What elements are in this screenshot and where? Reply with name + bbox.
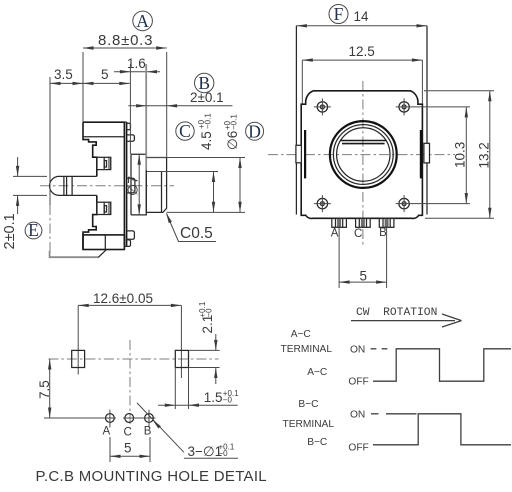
svg-text:8.8±0.3: 8.8±0.3	[98, 32, 153, 49]
svg-text:13.2: 13.2	[476, 142, 491, 168]
svg-text:12.6±0.05: 12.6±0.05	[93, 291, 153, 306]
svg-text:C: C	[123, 426, 131, 438]
svg-text:A: A	[136, 11, 149, 31]
svg-text:OFF: OFF	[348, 377, 368, 388]
svg-text:C0.5: C0.5	[180, 225, 213, 242]
svg-text:C: C	[179, 121, 191, 141]
svg-text:−0: −0	[223, 396, 233, 405]
svg-text:B−C: B−C	[298, 399, 318, 410]
svg-text:5: 5	[124, 441, 132, 456]
svg-text:1.5: 1.5	[204, 390, 223, 405]
svg-text:TERMINAL: TERMINAL	[283, 419, 335, 430]
svg-text:B: B	[198, 73, 210, 93]
svg-text:CW ROTATION: CW ROTATION	[356, 307, 437, 319]
svg-text:ON: ON	[350, 344, 365, 355]
svg-text:−0.1: −0.1	[230, 114, 239, 130]
svg-text:ON: ON	[350, 410, 365, 421]
svg-text:OFF: OFF	[348, 442, 368, 453]
svg-text:TERMINAL: TERMINAL	[281, 344, 333, 355]
svg-text:1.6: 1.6	[127, 56, 146, 71]
svg-text:F: F	[334, 4, 344, 24]
svg-text:7.5: 7.5	[37, 380, 52, 399]
svg-text:3.5: 3.5	[54, 67, 73, 82]
svg-text:10.3: 10.3	[452, 142, 467, 168]
svg-text:14: 14	[354, 9, 370, 24]
svg-text:5: 5	[101, 67, 109, 82]
svg-text:A−C: A−C	[291, 329, 311, 340]
svg-text:3−∅1: 3−∅1	[188, 444, 223, 459]
svg-text:5: 5	[360, 269, 368, 284]
svg-text:B: B	[144, 426, 152, 438]
svg-text:A−C: A−C	[307, 367, 327, 378]
svg-text:−0: −0	[219, 449, 229, 458]
svg-text:∅6: ∅6	[225, 131, 240, 150]
svg-text:−0: −0	[205, 308, 214, 318]
svg-text:P.C.B MOUNTING HOLE DETAIL: P.C.B MOUNTING HOLE DETAIL	[36, 468, 267, 485]
svg-text:12.5: 12.5	[349, 44, 375, 59]
svg-text:∅7: ∅7	[124, 176, 140, 196]
svg-text:4.5: 4.5	[199, 131, 214, 150]
svg-text:C: C	[354, 228, 362, 240]
svg-text:B−C: B−C	[307, 437, 327, 448]
svg-text:E: E	[28, 220, 39, 240]
svg-text:−0.1: −0.1	[204, 113, 213, 129]
svg-text:D: D	[248, 121, 261, 141]
svg-text:2±0.1: 2±0.1	[2, 213, 18, 249]
svg-text:A: A	[331, 227, 339, 239]
svg-text:A: A	[102, 426, 110, 438]
svg-text:B: B	[379, 227, 387, 239]
